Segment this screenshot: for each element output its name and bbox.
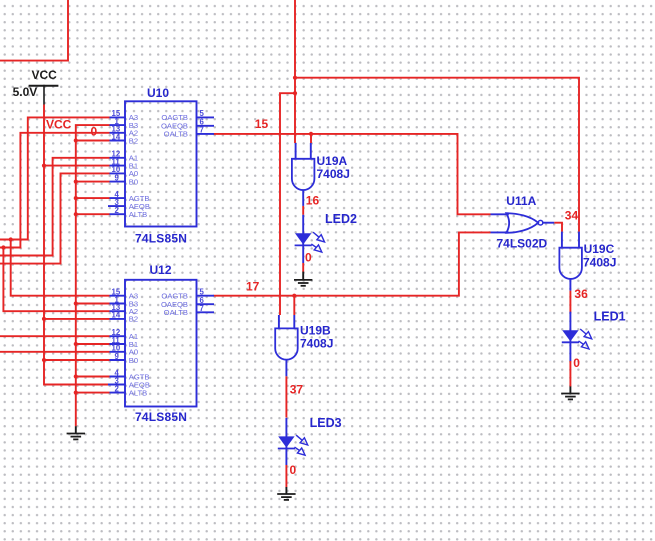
svg-text:VCC: VCC xyxy=(46,118,72,132)
svg-text:U19B: U19B xyxy=(300,324,331,338)
svg-text:2: 2 xyxy=(115,384,120,393)
wire net 34: U11A output to U19C input 1 xyxy=(554,223,562,232)
svg-text:LED1: LED1 xyxy=(594,309,626,323)
wire net A2: U10.A2 to U12.A2, exits left edge xyxy=(0,133,110,248)
svg-text:17: 17 xyxy=(246,280,260,294)
svg-text:B0: B0 xyxy=(129,356,138,365)
AND gate U19A 7408J (points down) xyxy=(292,143,350,206)
junction 0/U10.AGTB xyxy=(74,196,78,200)
svg-text:2: 2 xyxy=(115,206,120,215)
svg-text:5.0V: 5.0V xyxy=(13,85,38,99)
junction 0/U12.B3 xyxy=(74,301,78,305)
IC U10 74LS85N 4-bit comparator xyxy=(108,86,214,246)
junction net15/U19A.in2 xyxy=(309,132,313,136)
junction 0/U12.B1 xyxy=(74,342,78,346)
IC U12 74LS85N 4-bit comparator xyxy=(108,263,214,424)
wire LED2 cathode to ground xyxy=(302,263,304,272)
wire ground net 0 vertical trunk feeding B pins of U10/U12 down to ground xyxy=(76,125,110,426)
svg-text:34: 34 xyxy=(565,209,579,223)
junction A2 xyxy=(1,245,5,249)
svg-text:U12: U12 xyxy=(150,263,172,277)
wire LED1 cathode to ground xyxy=(569,361,571,387)
svg-text:U19A: U19A xyxy=(317,154,348,168)
svg-text:ALTB: ALTB xyxy=(129,210,147,219)
wire top vertical net from top edge to U19A input 1 xyxy=(294,0,296,143)
wire net 15: U10 pin7 to U11A input 1 and U19A input 2 xyxy=(213,134,490,214)
AND gate U19B 7408J (points down) xyxy=(275,315,333,376)
svg-text:0: 0 xyxy=(91,125,98,139)
junction net17/U19B.in2 xyxy=(292,294,296,298)
svg-text:7: 7 xyxy=(200,126,204,135)
wire net 17: U12 pin5 to U11A input 2 and U19B input 2 xyxy=(213,232,490,295)
wire top-left L-shaped net (exits top and left edges) xyxy=(0,0,68,61)
wire net U12.A0 from left edge xyxy=(0,351,110,353)
svg-text:0: 0 xyxy=(573,356,580,370)
svg-text:LED3: LED3 xyxy=(310,416,342,430)
junction VCC/U10.B1 xyxy=(42,164,46,168)
svg-text:9: 9 xyxy=(115,352,120,361)
svg-text:B0: B0 xyxy=(129,177,138,186)
svg-text:LED2: LED2 xyxy=(325,212,357,226)
svg-text:36: 36 xyxy=(574,287,588,301)
ground below LED2 xyxy=(294,272,312,286)
svg-text:U10: U10 xyxy=(147,86,169,100)
NOR gate U11A 74LS02D (points right) xyxy=(491,194,555,250)
junction 0/U10.ALTB xyxy=(74,212,78,216)
power VCC source symbol bar and stem xyxy=(29,85,59,87)
svg-text:0: 0 xyxy=(305,251,312,265)
svg-text:74LS02D: 74LS02D xyxy=(497,236,548,250)
junction 0/U12.ALTB xyxy=(74,391,78,395)
wire net U12.A1 from left edge xyxy=(0,335,110,337)
svg-text:0: 0 xyxy=(290,463,297,477)
junction top net branch left xyxy=(293,91,297,95)
junction VCC/U12.B2 xyxy=(42,317,46,321)
LED LED1 xyxy=(562,309,626,361)
junction 0/U12.AGTB xyxy=(74,374,78,378)
junction 0/U10.B2 xyxy=(74,138,78,142)
wire LED3 cathode to ground xyxy=(285,465,287,487)
svg-text:37: 37 xyxy=(290,382,304,396)
junction top net branch right xyxy=(293,76,297,80)
svg-text:B2: B2 xyxy=(129,136,138,145)
svg-text:U19C: U19C xyxy=(584,242,615,256)
svg-text:9: 9 xyxy=(115,173,120,182)
svg-text:16: 16 xyxy=(306,194,320,208)
svg-text:B2: B2 xyxy=(129,315,138,324)
ground below LED1 xyxy=(561,386,579,399)
wire branch right at y=77.7 over to U19C input 2 xyxy=(295,78,579,232)
svg-text:ALTB: ALTB xyxy=(129,388,147,397)
svg-text:14: 14 xyxy=(112,132,121,141)
svg-text:74LS85N: 74LS85N xyxy=(135,232,187,246)
svg-text:U11A: U11A xyxy=(506,194,536,208)
wire VCC net vertical trunk with branches to U10.B1, U12.B2, U12.B0, U12.AEQB xyxy=(44,105,110,385)
junction VCC/U12.B0 xyxy=(42,358,46,362)
wire net 36: U19C output to LED1 xyxy=(569,291,571,313)
svg-text:7408J: 7408J xyxy=(317,167,350,181)
wire branch left at y=93.2 down to U19B input 1 xyxy=(280,93,295,315)
ground below LED3 xyxy=(277,487,295,500)
svg-text:7: 7 xyxy=(200,304,204,313)
AND gate U19C 7408J (points down) xyxy=(559,232,616,291)
svg-text:7408J: 7408J xyxy=(583,256,616,270)
LED LED2 xyxy=(295,212,357,263)
svg-text:7408J: 7408J xyxy=(300,337,333,351)
svg-text:VCC: VCC xyxy=(32,68,58,82)
junction A3 xyxy=(9,237,13,241)
wire net U10.A1 exits left edge xyxy=(0,158,110,256)
ground below chips (net 0) xyxy=(67,426,85,439)
wire net 37: U19B output to LED3 xyxy=(285,376,287,417)
svg-text:14: 14 xyxy=(112,311,121,320)
svg-text:OALTB: OALTB xyxy=(164,130,188,139)
svg-text:74LS85N: 74LS85N xyxy=(135,410,187,424)
junction 0/U10.B0 xyxy=(74,180,78,184)
wire net A3: U10.A3 to U12.A3, exits left edge xyxy=(0,117,110,239)
svg-text:OALTB: OALTB xyxy=(164,308,188,317)
wire net U10.A0 exits left edge xyxy=(0,173,110,263)
wire net 16: U19A output to LED2 xyxy=(302,206,304,215)
LED LED3 xyxy=(278,416,342,465)
svg-text:15: 15 xyxy=(255,117,269,131)
